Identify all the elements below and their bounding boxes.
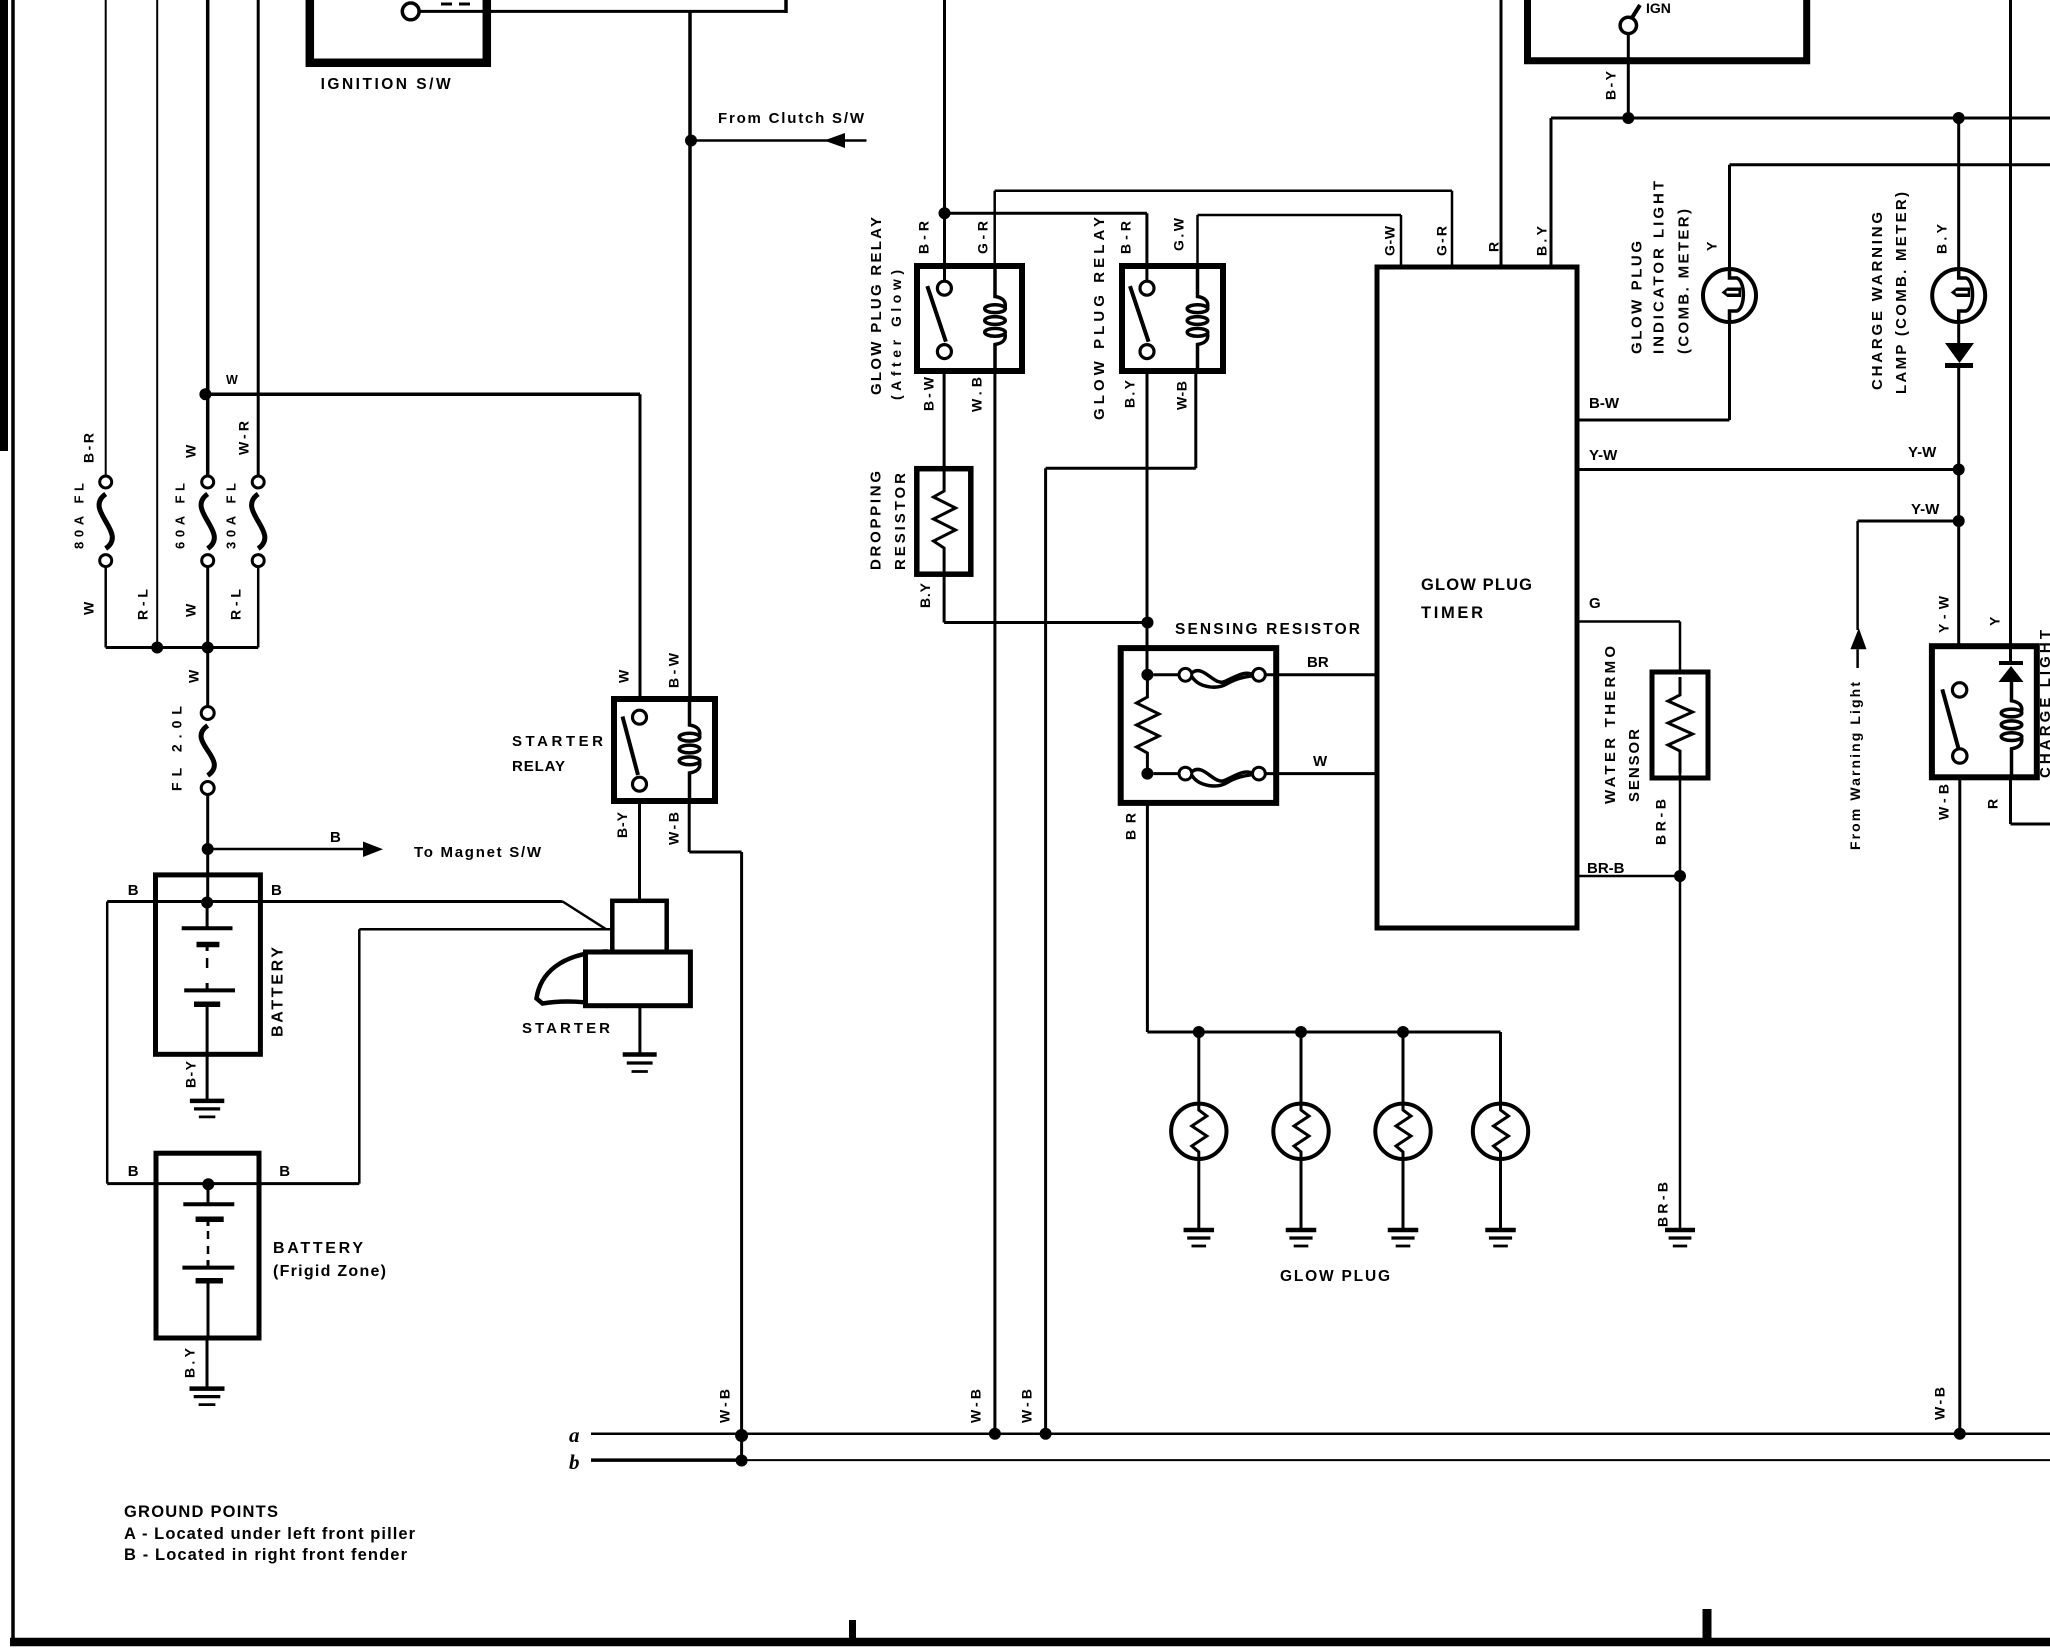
- svg-text:Y: Y: [1703, 241, 1719, 251]
- svg-text:B-R: B-R: [80, 433, 96, 463]
- svg-text:G-R: G-R: [974, 221, 990, 254]
- svg-text:W-B: W-B: [1018, 1389, 1034, 1423]
- svg-text:BR: BR: [1307, 654, 1329, 671]
- svg-text:From Warning Light: From Warning Light: [1847, 682, 1863, 850]
- svg-text:W: W: [615, 669, 631, 683]
- svg-text:SENSING RESISTOR: SENSING RESISTOR: [1175, 621, 1360, 638]
- svg-text:W: W: [185, 669, 201, 683]
- svg-text:R: R: [1984, 799, 2000, 809]
- svg-text:R-L: R-L: [134, 589, 150, 620]
- svg-text:B-W: B-W: [920, 376, 936, 411]
- svg-text:B-R: B-R: [915, 221, 931, 254]
- svg-text:Y-W: Y-W: [1911, 501, 1940, 518]
- svg-text:W: W: [226, 373, 238, 387]
- svg-text:W-B: W-B: [1935, 784, 1951, 820]
- svg-text:B.Y: B.Y: [1933, 223, 1949, 254]
- svg-text:TIMER: TIMER: [1421, 604, 1483, 622]
- svg-text:W-B: W-B: [665, 812, 681, 845]
- svg-text:GLOW PLUG RELAY: GLOW PLUG RELAY: [868, 217, 885, 395]
- svg-text:B.Y: B.Y: [1533, 225, 1549, 256]
- svg-text:Y-W: Y-W: [1908, 444, 1937, 461]
- svg-text:B: B: [330, 829, 341, 846]
- svg-text:R: R: [1485, 242, 1501, 252]
- svg-text:W-B: W-B: [967, 1389, 983, 1423]
- svg-text:B.Y: B.Y: [1121, 379, 1137, 408]
- svg-text:A - Located under left front p: A - Located under left front piller: [124, 1525, 416, 1543]
- svg-text:GLOW PLUG: GLOW PLUG: [1421, 576, 1532, 594]
- svg-text:W: W: [1313, 753, 1328, 770]
- svg-text:W.B: W.B: [968, 377, 984, 412]
- svg-text:GLOW PLUG: GLOW PLUG: [1280, 1268, 1390, 1285]
- svg-text:Y-W: Y-W: [1589, 447, 1618, 464]
- svg-text:DROPPING: DROPPING: [868, 471, 885, 570]
- svg-text:B-R: B-R: [1117, 221, 1133, 254]
- svg-text:RESISTOR: RESISTOR: [892, 473, 909, 570]
- svg-text:G: G: [1589, 595, 1601, 612]
- svg-text:W-B: W-B: [1931, 1387, 1947, 1420]
- svg-text:(Frigid Zone): (Frigid Zone): [273, 1263, 386, 1280]
- svg-text:W: W: [182, 444, 198, 458]
- svg-text:SENSOR: SENSOR: [1626, 729, 1643, 802]
- svg-text:BR-B: BR-B: [1652, 799, 1668, 845]
- svg-text:B-Y: B-Y: [1602, 70, 1618, 100]
- svg-text:IGN: IGN: [1646, 0, 1671, 16]
- svg-text:RELAY: RELAY: [512, 758, 565, 775]
- svg-text:G-R: G-R: [1433, 226, 1449, 256]
- svg-text:LAMP (COMB. METER): LAMP (COMB. METER): [1893, 192, 1910, 394]
- svg-text:(COMB. METER): (COMB. METER): [1676, 209, 1693, 354]
- svg-text:a: a: [569, 1423, 580, 1447]
- svg-text:BR-B: BR-B: [1654, 1182, 1670, 1227]
- svg-text:G-W: G-W: [1381, 225, 1397, 256]
- svg-text:B - Located in right front fen: B - Located in right front fender: [124, 1546, 408, 1564]
- svg-text:W: W: [80, 601, 96, 615]
- svg-text:GLOW PLUG: GLOW PLUG: [1629, 241, 1646, 354]
- svg-text:B-Y: B-Y: [614, 811, 630, 838]
- svg-text:Y: Y: [1986, 616, 2002, 626]
- svg-text:W: W: [182, 603, 198, 617]
- svg-text:CHARGE LIGHT: CHARGE LIGHT: [2037, 630, 2050, 778]
- svg-text:B: B: [271, 882, 282, 899]
- svg-text:B-W: B-W: [1589, 395, 1620, 412]
- svg-text:W-B: W-B: [1173, 381, 1189, 410]
- svg-text:GLOW PLUG RELAY: GLOW PLUG RELAY: [1091, 217, 1108, 420]
- svg-text:B-W: B-W: [665, 652, 681, 688]
- svg-text:W-R: W-R: [235, 421, 251, 455]
- svg-text:GROUND POINTS: GROUND POINTS: [124, 1503, 278, 1521]
- svg-text:B: B: [128, 882, 139, 899]
- svg-text:G.W: G.W: [1170, 217, 1186, 251]
- svg-text:W-B: W-B: [716, 1389, 732, 1423]
- svg-text:b: b: [569, 1450, 580, 1474]
- svg-text:B-Y: B-Y: [182, 1060, 198, 1088]
- svg-text:B: B: [279, 1163, 290, 1180]
- svg-text:B.Y: B.Y: [917, 582, 933, 608]
- svg-text:R-L: R-L: [227, 589, 243, 620]
- svg-text:BR-B: BR-B: [1587, 860, 1625, 877]
- svg-text:WATER THERMO: WATER THERMO: [1602, 646, 1619, 804]
- svg-text:B.Y: B.Y: [181, 1347, 197, 1378]
- svg-text:B: B: [128, 1163, 139, 1180]
